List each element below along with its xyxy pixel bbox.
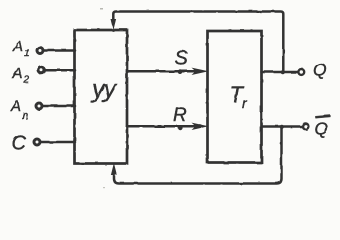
svg-text:n: n bbox=[22, 110, 28, 122]
faint scan speck top left bbox=[100, 8, 103, 10]
wire input A2 bbox=[45, 69, 75, 72]
wire R bbox=[127, 125, 201, 128]
svg-text:Q: Q bbox=[315, 119, 329, 139]
arrowhead up into UU bottom bbox=[111, 163, 117, 175]
terminal circle Q bbox=[298, 69, 304, 75]
wire S bbox=[127, 70, 201, 73]
wire input An bbox=[43, 105, 75, 108]
junction dot on Q-bar wire bbox=[280, 125, 284, 129]
block Tr (trigger) bbox=[208, 31, 262, 163]
svg-text:A: A bbox=[10, 98, 21, 115]
terminal circle A2 bbox=[39, 67, 45, 73]
terminal circle An bbox=[36, 103, 42, 109]
wire top feedback (Q to UU top) bbox=[113, 12, 283, 72]
svg-text:C: C bbox=[12, 133, 27, 155]
wire Q output bbox=[262, 71, 298, 74]
block UU (control unit) bbox=[75, 30, 128, 164]
faint scan speck bottom bbox=[103, 187, 105, 188]
svg-text:S: S bbox=[175, 47, 189, 69]
svg-text:y: y bbox=[102, 76, 118, 104]
svg-text:R: R bbox=[173, 105, 187, 126]
terminal circle Q-bar bbox=[303, 123, 309, 129]
junction dot on S wire bbox=[178, 69, 183, 74]
svg-text:A: A bbox=[12, 65, 23, 82]
overbar of Q-bar bbox=[315, 115, 330, 118]
svg-text:2: 2 bbox=[23, 75, 30, 86]
wire Q-bar output bbox=[262, 125, 302, 128]
svg-text:1: 1 bbox=[24, 48, 30, 59]
junction dot on Q wire bbox=[281, 70, 285, 74]
wire input C bbox=[41, 141, 75, 144]
terminal circle A1 bbox=[37, 48, 43, 54]
arrowhead S into Tr bbox=[192, 68, 209, 75]
arrowhead down into UU top bbox=[111, 19, 117, 31]
wire bottom feedback (Q-bar to UU bottom) bbox=[114, 127, 282, 184]
wire input A1 bbox=[44, 49, 76, 52]
arrowhead R into Tr bbox=[192, 123, 209, 130]
terminal circle C bbox=[34, 139, 40, 145]
svg-text:A: A bbox=[12, 38, 23, 55]
junction dot on R wire bbox=[178, 126, 183, 131]
svg-text:Q: Q bbox=[313, 60, 327, 80]
